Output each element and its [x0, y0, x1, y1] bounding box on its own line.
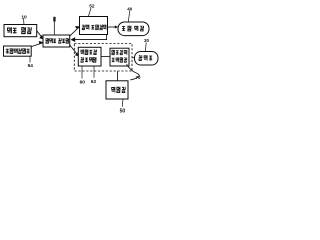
text in box sensor1 — [7, 27, 31, 33]
arrowhead into controller right — [71, 37, 76, 42]
wire comm box to server stadium — [108, 26, 117, 28]
wire controller to comm box (diagonal up-right) — [70, 27, 79, 36]
svg-text:40: 40 — [127, 6, 132, 11]
arrowhead into server stadium — [115, 26, 118, 29]
text in box filter — [112, 50, 127, 62]
svg-text:62: 62 — [91, 79, 97, 85]
text in stadium drain — [139, 55, 152, 60]
text in box comm — [82, 25, 106, 30]
label 20 (blob above controller) — [53, 17, 55, 22]
leader line for 50 — [121, 99, 124, 107]
leader line for 30 — [144, 42, 147, 51]
leader line for 10 — [23, 19, 25, 25]
arrowhead into heater box — [75, 52, 79, 56]
arrowhead into controller left upper — [39, 35, 43, 39]
text in box controller — [46, 38, 69, 43]
dashed unit box — [74, 44, 132, 72]
box sensor2 (left "수질감지센서") — [4, 46, 32, 56]
leader line for 20 — [53, 21, 55, 35]
wire sensor1 to controller — [37, 31, 43, 38]
box heater (in dashed, left, two text rows) — [78, 47, 101, 66]
box comm (top-center "원격 제어부") — [80, 17, 108, 35]
wire dashed box bottom to display box — [117, 71, 119, 80]
box filter (in dashed, right, two text rows) — [110, 48, 129, 66]
curved wire right side down to display box — [127, 64, 140, 80]
leader line for 60 — [81, 66, 83, 78]
wire dashed box to drain stadium — [132, 57, 134, 59]
wire heater box to filter box — [101, 56, 110, 58]
text in stadium server — [122, 26, 144, 31]
leader line for 54 — [29, 56, 31, 62]
arrowhead into controller left lower — [39, 41, 44, 44]
text in box display — [112, 87, 126, 93]
svg-text:70: 70 — [136, 75, 141, 80]
leader line for 52 — [88, 8, 91, 16]
stadium server (top-right rounded) — [118, 22, 149, 36]
box display (bottom "표시부") — [106, 81, 128, 99]
svg-text:10: 10 — [21, 15, 27, 21]
svg-text:54: 54 — [28, 63, 34, 69]
box sensor1 (top-left "수온 센서") — [4, 25, 37, 37]
wire sensor2 to controller — [31, 43, 42, 47]
wire comm box corner down then left into controller (arrow) — [74, 35, 107, 40]
svg-text:52: 52 — [89, 3, 95, 9]
leader line for 62 — [93, 66, 95, 78]
wire controller to heater box (diagonal down-right) — [70, 45, 78, 55]
svg-text:30: 30 — [144, 38, 149, 43]
text in box sensor2 — [6, 48, 30, 53]
arrowhead into comm box — [75, 26, 80, 29]
svg-text:60: 60 — [80, 80, 86, 86]
text in box heater — [81, 50, 97, 63]
box controller (center "중앙 처리장치") — [43, 35, 70, 47]
svg-text:50: 50 — [120, 109, 126, 115]
stadium drain (right-middle rounded) — [135, 52, 159, 66]
leader line for 40 — [128, 11, 130, 22]
